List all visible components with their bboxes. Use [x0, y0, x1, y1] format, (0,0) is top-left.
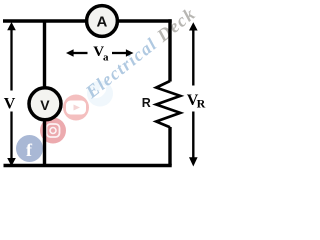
- voltmeter U2 circle: [29, 88, 61, 120]
- svg-text:A: A: [97, 13, 108, 30]
- watermark instagram icon: [40, 118, 66, 144]
- wire: right vertical upper: [168, 19, 171, 81]
- watermark social icons: [16, 3, 199, 162]
- arrow V left: upper line and up arrowhead: [10, 29, 12, 91]
- resistor R: [156, 81, 180, 127]
- wire: top right segment: [119, 19, 172, 22]
- watermark facebook icon: [16, 135, 43, 162]
- svg-text:R: R: [142, 96, 151, 110]
- arrow VR: lower line and down arrowhead: [192, 112, 194, 159]
- arrow V left: lower line and down arrowhead: [10, 112, 12, 160]
- arrow VR: upper line and up arrowhead: [192, 29, 194, 86]
- arrow Va left (points left): [73, 52, 88, 54]
- wire: voltmeter branch lower: [43, 119, 46, 166]
- wire: bottom: [4, 164, 172, 167]
- watermark youtube icon: [63, 95, 89, 121]
- ammeter U1 circle: [87, 6, 118, 37]
- wire: top left segment: [3, 19, 86, 22]
- wire: voltmeter branch upper: [43, 21, 46, 89]
- wire: right vertical lower: [168, 127, 171, 166]
- svg-text:f: f: [26, 140, 33, 160]
- svg-text:a: a: [103, 51, 109, 63]
- arrow Va right (points right): [112, 52, 127, 54]
- svg-text:V: V: [40, 97, 50, 113]
- svg-text:R: R: [197, 97, 206, 111]
- svg-text:V: V: [4, 96, 16, 113]
- watermark twitter icon: [87, 81, 113, 107]
